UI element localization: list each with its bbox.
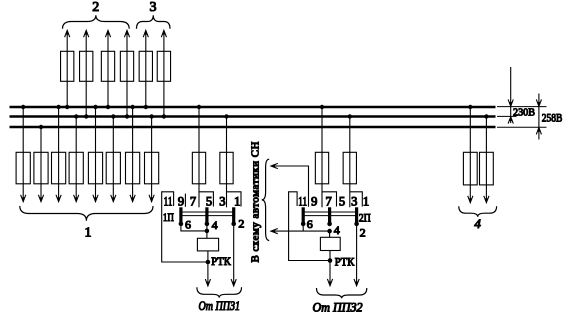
junction feeder 5 on bus A	[93, 105, 97, 109]
svg-text:230В: 230В	[513, 106, 535, 118]
extension line bus B	[497, 115, 517, 117]
junction feeder 6 on bus B	[111, 114, 115, 118]
bus C (bottom phase busbar)	[10, 126, 496, 128]
junction feeder 3 on bus A	[56, 105, 60, 109]
wire node to relay coil РТК2	[329, 231, 331, 237]
socket contact 3 of connector 2П	[350, 192, 363, 207]
wire node РТК1 to От ППЗ1	[207, 262, 209, 286]
fuse F19	[463, 152, 477, 185]
junction feeder 7 on bus A	[130, 105, 134, 109]
wire fuse feeder to pin 7 of connector 2П	[321, 107, 323, 207]
junction feeder 1 on bus A	[21, 105, 25, 109]
connector 1П body line lower	[181, 215, 234, 217]
wire fuse feeder to pin 3 of connector 2П	[349, 117, 351, 208]
junction on bus B	[224, 114, 228, 118]
junction source 3 on bus A	[106, 105, 110, 109]
wire pin 6 down to automation line	[302, 224, 304, 231]
arrow К ППЗ1 left	[205, 279, 210, 286]
svg-text:1: 1	[85, 226, 92, 241]
socket contact 5 of connector 1П	[199, 192, 213, 207]
arrow feeder 5	[93, 195, 98, 202]
svg-text:9: 9	[311, 194, 317, 208]
svg-text:2: 2	[238, 217, 244, 231]
wire source 2 from bus B	[85, 31, 87, 117]
arrow feeder 7	[130, 195, 135, 202]
fuse F16	[220, 152, 233, 184]
terminal dot pin 4	[327, 222, 332, 227]
wire source 6 from bus B	[163, 31, 165, 117]
svg-text:11: 11	[164, 194, 173, 208]
fuse F2	[34, 152, 48, 184]
wire pin 6 to pin 4 node	[181, 224, 207, 231]
fuse F1	[16, 152, 30, 184]
dimension arrow up at bus C (258В)	[536, 128, 541, 135]
node РТК2	[328, 258, 333, 263]
wire feeder 3 from bus A	[58, 107, 60, 201]
arrow К ППЗ2 right	[354, 279, 359, 286]
arrow feeder 8	[149, 195, 154, 202]
plug pin 2 of connector 2П	[355, 207, 358, 224]
wire source 1 from bus A	[66, 31, 68, 107]
junction source 5 on bus A	[144, 105, 148, 109]
fuse F12	[120, 51, 133, 81]
arrow feeder 6	[111, 195, 116, 202]
wire feeder 6 from bus B	[112, 117, 114, 202]
svg-text:От ППЗ2: От ППЗ2	[313, 300, 363, 315]
junction source 1 on bus A	[65, 105, 69, 109]
dimension arrow down at bus A	[508, 99, 513, 106]
wire feeder 8 from bus B	[151, 117, 153, 202]
wire pin 9 of connector 2П to automation circuit	[271, 166, 309, 207]
terminal dot pin 2	[354, 222, 359, 227]
svg-text:От ППЗ1: От ППЗ1	[199, 298, 241, 313]
wire source 5 from bus A	[145, 31, 147, 107]
arrow load 2 group 4	[484, 196, 489, 203]
junction source 4 on bus B	[125, 114, 129, 118]
svg-text:2П: 2П	[359, 210, 371, 224]
svg-text:7: 7	[325, 194, 331, 208]
svg-text:2: 2	[360, 226, 366, 240]
extension line bus A	[497, 106, 547, 108]
wire coil РТК1 to node	[207, 251, 209, 262]
arrow source 6	[161, 30, 166, 37]
wire automation circuit lower to node РТК2 coil	[271, 230, 330, 232]
svg-text:3: 3	[150, 0, 157, 15]
connector 1П body line upper	[181, 211, 234, 213]
bus B (middle phase busbar)	[10, 115, 496, 117]
brace group 4	[459, 206, 497, 217]
connector 2П body line lower	[303, 215, 356, 217]
junction node above coil РТК2	[327, 229, 332, 234]
relay coil РТК1	[197, 238, 218, 251]
terminal dot pin 6	[179, 222, 184, 227]
dimension line 258В	[538, 94, 540, 140]
wire feeder 7 from bus A	[132, 107, 134, 201]
junction feeder 4 on bus B	[74, 114, 78, 118]
arrow feeder 1	[21, 195, 26, 202]
svg-text:4: 4	[474, 216, 481, 231]
plug pin 4 of connector 2П	[328, 207, 331, 224]
wire feeder 4 from bus B	[75, 117, 77, 202]
arrow to automation circuit upper	[271, 163, 278, 168]
terminal dot pin 2	[231, 222, 236, 227]
terminal dot pin 6	[301, 222, 306, 227]
junction source 6 on bus B	[162, 114, 166, 118]
fuse F6	[106, 152, 120, 184]
bus A (top phase busbar)	[10, 106, 496, 108]
wire load 2 of group 4 from bus B	[485, 117, 487, 203]
svg-text:1: 1	[234, 194, 240, 208]
dimension arrow up at bus B	[508, 117, 513, 124]
arrow feeder 3	[56, 195, 61, 202]
svg-text:6: 6	[307, 217, 313, 231]
fuse F20	[480, 152, 494, 185]
arrow source 3	[105, 30, 110, 37]
svg-text:РТК: РТК	[211, 254, 231, 268]
arrow source 5	[143, 30, 148, 37]
arrow to automation circuit lower	[271, 229, 278, 234]
fuse F14	[157, 51, 170, 81]
socket contact 1 of connector 1П	[227, 192, 242, 207]
fuse F8	[145, 152, 159, 184]
svg-text:4: 4	[334, 223, 340, 237]
arrow feeder 4	[74, 195, 79, 202]
svg-text:7: 7	[190, 194, 196, 208]
wire load 1 of group 4 from bus A	[469, 107, 471, 202]
wire coil РТК2 to node	[329, 251, 331, 261]
svg-text:2: 2	[92, 0, 99, 15]
socket contact 11 of connector 1П and wire to node РТК1	[162, 192, 208, 262]
junction on bus A	[197, 105, 201, 109]
fuse F3	[52, 152, 66, 184]
junction feeder 8 on bus B	[149, 114, 153, 118]
svg-text:258В: 258В	[542, 111, 563, 125]
svg-text:3: 3	[219, 194, 225, 208]
junction node above coil РТК1	[205, 229, 210, 234]
fuse F11	[101, 51, 114, 81]
fuse F10	[80, 51, 93, 81]
plug pin 2 of connector 1П	[232, 207, 235, 224]
wire source 3 from bus A	[107, 31, 109, 107]
svg-text:1: 1	[363, 194, 369, 208]
pin separator 9/7 of connector 1П	[184, 194, 186, 207]
terminal dot pin 4	[205, 222, 210, 227]
fuse F18	[343, 152, 356, 184]
arrow feeder 2	[38, 195, 43, 202]
fuse F17	[315, 152, 328, 184]
brace group 1	[20, 206, 153, 221]
svg-text:В схему автоматики СН: В схему автоматики СН	[249, 141, 261, 262]
junction on bus B	[484, 114, 488, 118]
junction on bus A	[320, 105, 324, 109]
svg-text:9: 9	[178, 194, 184, 208]
socket contact 11 of connector 2П and wire to node РТК2	[289, 192, 330, 261]
brace От ППЗ2	[317, 288, 367, 298]
junction on bus A	[468, 105, 472, 109]
arrow source 2	[84, 30, 89, 37]
fuse F5	[88, 152, 102, 184]
svg-text:3: 3	[351, 194, 357, 208]
svg-text:6: 6	[185, 218, 191, 232]
wire pin 4 down to relay coil	[206, 224, 208, 238]
svg-text:1П: 1П	[163, 210, 174, 224]
junction source 2 on bus B	[84, 114, 88, 118]
fuse F15	[192, 152, 205, 184]
svg-text:4: 4	[212, 218, 218, 232]
wire feeder 5 from bus A	[95, 107, 97, 201]
wire source 4 from bus B	[126, 31, 128, 117]
arrow К ППЗ2 left	[327, 279, 332, 286]
wire fuse feeder to pin 1 of connector 1П	[226, 117, 228, 208]
junction feeder 2 on bus C	[39, 125, 43, 129]
plug pin 6 of connector 1П	[179, 207, 182, 224]
wire node РТК2 to От ППЗ2	[329, 261, 331, 286]
fuse F13	[139, 51, 152, 81]
svg-text:РТК: РТК	[335, 255, 355, 269]
svg-text:11: 11	[298, 194, 307, 208]
brace От ППЗ1	[197, 287, 242, 297]
wire feeder 2 from bus C	[40, 127, 42, 201]
plug pin 4 of connector 1П	[205, 207, 208, 224]
socket contact 7 of connector 2П	[322, 192, 337, 207]
brace group 3	[137, 15, 171, 29]
brace group 2	[63, 15, 130, 29]
plug pin 6 of connector 2П	[302, 207, 305, 224]
fuse F4	[69, 152, 83, 184]
relay coil РТК2	[320, 237, 340, 250]
wire feeder 1 from bus A	[22, 107, 24, 201]
junction on bus B	[348, 114, 352, 118]
dimension arrow down at bus A (258В)	[536, 99, 541, 106]
node РТК1	[206, 260, 211, 265]
arrow load 1 group 4	[468, 196, 473, 203]
extension line bus C	[497, 126, 547, 128]
fuse F7	[126, 152, 140, 184]
arrow source 4	[124, 30, 129, 37]
svg-text:5: 5	[339, 194, 345, 208]
brace automation circuit	[262, 159, 270, 240]
arrow К ППЗ1 right	[231, 279, 236, 286]
dimension line 230В	[510, 67, 512, 123]
wire fuse feeder to pin 5 of connector 1П	[198, 107, 200, 207]
svg-text:5: 5	[206, 194, 212, 208]
connector 2П body line upper	[303, 211, 356, 213]
arrow source 1	[65, 30, 70, 37]
fuse F9	[61, 51, 74, 81]
wire pin 2 to От ППЗ2	[356, 224, 358, 286]
wire pin 2 to От ППЗ1	[233, 224, 235, 286]
